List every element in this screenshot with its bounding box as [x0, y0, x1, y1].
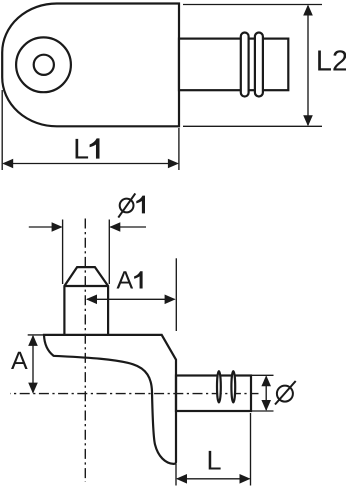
diameter1 arrow pointing left	[109, 222, 120, 232]
A dimension line	[32, 336, 34, 393]
stud chamfer base line	[64, 285, 108, 287]
diameter1 dimension: extension line right	[108, 220, 110, 285]
L1 dimension line	[4, 163, 178, 165]
diameter1 label digit 1	[136, 196, 145, 214]
A1 dimension line	[87, 298, 175, 300]
L2 arrow up	[303, 5, 313, 16]
diameter dimension extension line top	[252, 374, 274, 376]
L dimension line	[177, 478, 250, 480]
A arrow up	[28, 335, 38, 346]
diameter arrow up	[261, 375, 271, 386]
diameter label symbol circle	[277, 386, 293, 402]
bracket outline (front view)	[44, 335, 176, 464]
A arrow down	[28, 383, 38, 394]
L2 extension line bottom	[183, 125, 322, 127]
A dimension extension line	[28, 334, 45, 336]
diameter1 dimension: extension line left	[62, 220, 64, 285]
A1 extension line	[175, 258, 177, 331]
diameter dimension line	[265, 377, 267, 411]
A1 arrow left	[86, 295, 97, 305]
L1 arrow right	[168, 159, 179, 169]
L1 extension line right	[178, 128, 180, 170]
diameter1 arrow pointing right	[52, 222, 63, 232]
hole inner circle	[34, 55, 54, 75]
diameter dimension extension line bottom	[252, 410, 274, 412]
L arrow left	[176, 474, 187, 484]
pin ring 2 (top view)	[255, 33, 263, 97]
pin (top view)	[179, 39, 288, 91]
L2 dimension line	[307, 6, 309, 125]
pin (front view)	[176, 376, 251, 412]
L1 arrow left	[2, 159, 13, 169]
diameter label symbol slash	[275, 381, 296, 405]
stud (front view)	[64, 267, 108, 334]
horizontal centerline	[10, 393, 259, 395]
body (top view, rounded-end plate)	[2, 4, 179, 127]
L dimension extension line left	[175, 464, 177, 486]
L1 label	[76, 139, 89, 159]
L label	[209, 451, 221, 470]
diameter1 dimension line left part	[29, 226, 62, 228]
L arrow right	[240, 474, 251, 484]
diameter1 label symbol slash	[118, 193, 135, 217]
A label	[11, 352, 28, 369]
L1 extension line left	[1, 90, 3, 170]
A1 label	[117, 271, 134, 288]
L dimension extension line right	[250, 413, 252, 486]
diameter1 label symbol circle	[120, 199, 134, 213]
L2 arrow down	[303, 115, 313, 126]
pin ring 1 (front view)	[217, 371, 221, 402]
diameter1 dimension line right part	[110, 226, 146, 228]
vertical centerline	[84, 219, 86, 483]
L2 extension line top	[183, 4, 322, 6]
A1 arrow right	[165, 295, 176, 305]
pin ring 1 (top view)	[241, 33, 249, 97]
hole outer circle	[16, 37, 71, 92]
L2 label	[318, 50, 346, 70]
diameter arrow down	[261, 400, 271, 411]
pin ring 2 (front view)	[231, 371, 235, 402]
